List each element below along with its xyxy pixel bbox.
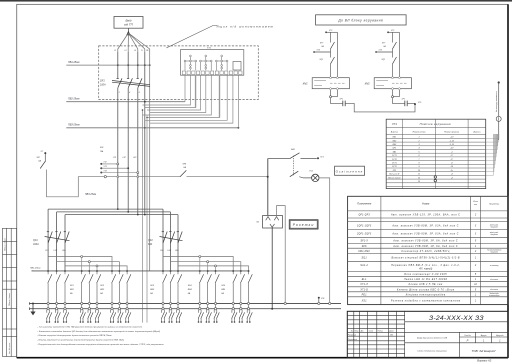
dashed enclosure box — [99, 46, 259, 100]
wire feed L1 horizontal — [48, 208, 163, 210]
tap junction on L2 — [127, 167, 129, 169]
wire feed L3 horizontal — [65, 214, 178, 216]
svg-text:ВВ1: ВВ1 — [70, 289, 74, 291]
phase distribution bus — [34, 270, 249, 272]
contactor КМ2 output wiring — [392, 90, 408, 107]
junction L1 — [117, 208, 119, 210]
wire QF1 pole3 — [64, 215, 66, 271]
svg-text:QF1-QF3: QF1-QF3 — [358, 214, 370, 216]
tap drops from steps — [82, 258, 216, 271]
svg-text:ХТ2: ХТ2 — [390, 30, 394, 32]
wire L2P down — [127, 88, 129, 212]
XT1 internal terminal clusters — [184, 55, 228, 71]
socket XS1 — [263, 216, 283, 229]
wire distribution step 2 (right) — [171, 262, 241, 271]
svg-text:ХТ2: ХТ2 — [328, 30, 332, 32]
svg-text:ПВ1-16мм: ПВ1-16мм — [30, 267, 41, 269]
svg-text:Розробив: Розробив — [348, 335, 356, 337]
junction N end — [144, 214, 146, 216]
svg-text:ЕL1: ЕL1 — [362, 279, 367, 281]
svg-text:Підпис і дата: Підпис і дата — [4, 237, 7, 251]
contactor КМ2 coil box — [374, 78, 411, 89]
svg-text:ХТ1-Б: ХТ1-Б — [359, 289, 368, 291]
svg-text:ХТ4: ХТ4 — [103, 169, 107, 172]
svg-text:ХТ1: ХТ1 — [206, 48, 212, 50]
wire distribution step 3 (left) — [65, 266, 127, 271]
svg-text:Авт. вимикач УЗВ-80М, 3Р, 63А,: Авт. вимикач УЗВ-80М, 3Р, 63А, 6кА тип С — [391, 232, 459, 235]
svg-text:63А: 63А — [148, 243, 153, 246]
label box Rozetky — [289, 220, 318, 229]
svg-text:SА1: SА1 — [393, 150, 397, 153]
svg-text:або аналог: або аналог — [490, 279, 498, 281]
svg-text:Арк: Арк — [360, 330, 364, 333]
breaker column SF1 — [46, 270, 52, 322]
svg-text:блокування: блокування — [490, 252, 498, 254]
svg-text:4: 4 — [129, 91, 130, 94]
wire N vertical long — [144, 52, 146, 215]
svg-text:–Лінилки переріжні безперервни: –Лінилки переріжні безперервних брати жи… — [36, 334, 112, 337]
svg-text:11: 11 — [418, 174, 420, 176]
wiring table (XT1 / Pomitka keruvannia) — [386, 119, 486, 188]
svg-text:QF1: QF1 — [393, 148, 397, 150]
svg-text:Перемикач ПВЗ-ВМ-Л (3-х поз.,: Перемикач ПВЗ-ВМ-Л (3-х поз., 3 фаз. 1-0… — [391, 264, 460, 267]
svg-text:Підпис: Підпис — [378, 330, 383, 333]
breaker column SF17 — [239, 270, 245, 322]
svg-text:L3: L3 — [134, 50, 136, 52]
control circuit 2 (contactor KM2) — [375, 31, 399, 77]
svg-text:КМ2: КМ2 — [365, 82, 370, 85]
contactor КМ1 coil box — [312, 78, 349, 89]
switch SF7 — [44, 154, 46, 162]
svg-text:4: 4 — [418, 147, 419, 150]
svg-text:1ХТ1: 1ХТ1 — [392, 155, 397, 157]
svg-text:2ХТ2: 2ХТ2 — [391, 166, 397, 168]
switch SF6 — [180, 170, 186, 176]
wire bundle from XT1 down and left — [143, 75, 239, 128]
svg-text:Розетка подвійна з заземлюючим: Розетка подвійна з заземлюючим контактом — [391, 300, 461, 303]
svg-text:РЕ1: РЕ1 — [362, 294, 368, 296]
wire L2 vertical — [127, 52, 129, 78]
apex arrowhead — [126, 31, 130, 36]
terminal circle lamp N on bus — [329, 302, 331, 304]
svg-text:SА1: SА1 — [291, 148, 295, 151]
svg-text:Номер провода: Номер провода — [444, 131, 460, 134]
wire PE vertical long — [149, 52, 151, 271]
svg-text:Аркуш: Аркуш — [480, 334, 487, 337]
svg-text:Контактор КТ-4023, 220В/50Гц: Контактор КТ-4023, 220В/50Гц — [402, 250, 450, 253]
svg-text:SQ1: SQ1 — [362, 258, 368, 260]
tap circle on L1 — [117, 163, 119, 165]
svg-text:КМ1: КМ1 — [303, 82, 308, 85]
svg-text:6: 6 — [139, 92, 140, 94]
terminal XT — [317, 157, 319, 159]
svg-text:SF8: SF8 — [100, 147, 103, 149]
socket N wire — [277, 206, 286, 303]
wire distribution step 1 (left) — [48, 257, 112, 271]
wire distribution step 2 (left) — [57, 262, 120, 271]
wire QF1 pole1 — [47, 209, 49, 271]
svg-text:ХТ4: ХТ4 — [320, 297, 324, 300]
terminal XT2 tap — [44, 152, 46, 154]
svg-text:До ВЛ блоку керування: До ВЛ блоку керування — [337, 19, 383, 23]
svg-text:Клемна Шінка силова КВС 6-70 «: Клемна Шінка силова КВС 6-70 «Влив — [397, 288, 455, 291]
wire PV2-25 line — [66, 101, 185, 103]
svg-text:SF6: SF6 — [362, 246, 367, 248]
svg-text:блокування: блокування — [490, 226, 498, 228]
breaker column SF12 — [176, 270, 182, 322]
svg-text:ТОВ “АК Енергія”: ТОВ “АК Енергія” — [472, 349, 497, 353]
table circle mark 2 — [434, 179, 436, 181]
svg-text:2ХТ1: 2ХТ1 — [391, 163, 397, 165]
wire feed L2 horizontal — [57, 211, 171, 213]
svg-text:шт: шт — [474, 204, 478, 206]
svg-text:1: 1 — [418, 137, 419, 139]
terminal stub XT4 — [318, 297, 320, 299]
wire SA1 out — [301, 158, 317, 160]
svg-text:1QF1-1QF3: 1QF1-1QF3 — [357, 226, 372, 228]
svg-text:ХР1: ХР1 — [392, 170, 397, 172]
tap terminal ХТ2 — [100, 163, 102, 165]
svg-text:Лампа LED 11 Вт Е27 4000К: Лампа LED 11 Вт Е27 4000К — [403, 278, 448, 281]
svg-text:Шифр бригадного відділення і-П: Шифр бригадного відділення і-ПВ — [417, 337, 448, 340]
page top edge line — [0, 0, 512, 2]
svg-text:Вимикач кінцевий ВП5К-3(4)(1)-: Вимикач кінцевий ВП5К-3(4)(1)-5(4)(2)-3/… — [391, 257, 459, 260]
wire lighting line left part — [106, 176, 180, 178]
svg-text:-2s: -2s — [450, 170, 453, 172]
svg-text:Кільк: Кільк — [473, 200, 478, 203]
svg-text:ПВ2-25мм: ПВ2-25мм — [68, 98, 80, 101]
XT1 terminal strip — [182, 71, 242, 75]
circuit breaker QF2 63A — [160, 230, 183, 243]
svg-text:Помічка керування: Помічка керування — [420, 122, 451, 126]
svg-text:КМ1,КМ2: КМ1,КМ2 — [358, 251, 370, 253]
wire input drop — [127, 28, 129, 33]
svg-text:Так встановлюються: Так встановлюються — [487, 250, 502, 252]
svg-text:Номер клеми: Номер клеми — [413, 132, 427, 134]
svg-text:до контуру заземлення: до контуру заземлення — [495, 91, 498, 112]
junction — [127, 64, 129, 66]
junction PV3/N — [144, 127, 146, 129]
svg-text:EL1: EL1 — [310, 171, 314, 173]
wire L1 vertical — [117, 52, 119, 78]
svg-text:Формат А3: Формат А3 — [477, 359, 492, 363]
svg-text:Авт. вимикач УЗВ-80М, 3Р, 63А,: Авт. вимикач УЗВ-80М, 3Р, 63А, 6кА тип С — [391, 225, 459, 228]
svg-text:-4: -4 — [451, 176, 453, 179]
specification table — [348, 196, 508, 304]
svg-text:SQ1: SQ1 — [320, 59, 324, 61]
breaker column SF11 — [169, 270, 175, 322]
wire QF2 pole1 — [162, 209, 164, 271]
svg-text:SА1-2: SА1-2 — [360, 264, 368, 267]
PE bus end tick — [29, 307, 31, 310]
wire lighting line right part — [187, 176, 268, 178]
svg-text:– Тип системи заземлення СТВ,: – Тип системи заземлення СТВ, ТАЇ указан… — [36, 326, 143, 329]
terminal XT5 — [414, 103, 416, 105]
svg-text:ХТ1-Л: ХТ1-Л — [359, 284, 368, 286]
svg-text:Адреса: Адреса — [472, 131, 481, 134]
svg-text:Перевірив: Перевірив — [348, 338, 357, 341]
svg-text:QF2: QF2 — [148, 239, 153, 242]
svg-text:ПВЗ-25мм: ПВЗ-25мм — [68, 124, 80, 127]
XT1 side box — [233, 62, 241, 71]
header box "До ВЛ блоку керування" — [316, 15, 407, 25]
contactor КМ1 output wiring — [330, 90, 346, 107]
wire distribution step 1 (right) — [163, 257, 233, 271]
tap terminal ХТ4 — [100, 172, 102, 174]
junction L3 — [137, 214, 139, 216]
wire QF1 pole2 — [56, 212, 58, 271]
svg-text:від ТП: від ТП — [124, 23, 134, 27]
svg-text:Назва: Назва — [422, 202, 430, 206]
ground symbol — [32, 303, 34, 305]
svg-text:Ящик під шиномонтажем: Ящик під шиномонтажем — [216, 25, 274, 29]
tap circle on L3 — [137, 172, 139, 174]
svg-text:Розетки: Розетки — [293, 223, 315, 227]
svg-text:Адреса: Адреса — [390, 131, 399, 134]
svg-text:Інв. № ориг.: Інв. № ориг. — [8, 342, 11, 354]
wire L3 vertical — [137, 52, 139, 78]
lamp EL1 — [312, 174, 319, 181]
svg-text:ПВ1-25мм: ПВ1-25мм — [68, 61, 80, 64]
svg-text:блокування: блокування — [490, 234, 498, 236]
leader line to enclosure label — [166, 26, 217, 49]
svg-text:Всі шини N: Всі шини N — [390, 173, 400, 176]
N bus end tick — [29, 302, 31, 305]
socket riser wire — [267, 159, 269, 216]
bus N — [30, 303, 342, 305]
svg-text:на напляжку: на напляжку — [490, 265, 499, 267]
wire joining control outputs — [346, 103, 416, 112]
svg-text:Авт. вимикач УЗВ-80М, 3Р, 6А,: Авт. вимикач УЗВ-80М, 3Р, 6А, 6кА тип С — [392, 239, 458, 242]
tap terminal ХТЗ — [100, 167, 102, 169]
SA1 mechanical link — [293, 156, 295, 176]
svg-text:–Лінилки відключені до розетко: –Лінилки відключені до розеткових жердів… — [36, 339, 125, 342]
svg-text:Освітлення: Освітлення — [336, 170, 364, 174]
svg-text:ПВЗ-25мм: ПВЗ-25мм — [85, 194, 96, 196]
svg-text:Клема А3В 2,5 ПЕ сим: Клема А3В 2,5 ПЕ сим — [409, 283, 443, 286]
breaker column SF13 — [198, 270, 204, 322]
breaker column SF10 — [161, 270, 167, 322]
ground clamp symbol — [496, 116, 501, 121]
svg-text:QF1: QF1 — [100, 80, 105, 83]
socket PE wire — [271, 227, 273, 309]
hop circle lighting/L3 — [137, 176, 139, 178]
junction PV3 end — [238, 127, 240, 129]
switch SA1 lower contact — [290, 171, 299, 177]
breaker column SF4 — [80, 270, 86, 322]
junction — [117, 64, 119, 66]
svg-text:ХТ2: ХТ2 — [103, 162, 107, 164]
svg-text:Аркушів: Аркушів — [495, 334, 503, 337]
wire PV3-25 line — [66, 127, 238, 129]
breaker column SF5 — [87, 270, 93, 322]
input source box "Ввід від ТП" — [114, 17, 143, 29]
wire QF2 pole3 — [177, 215, 179, 271]
terminal block XT1 — [181, 50, 244, 76]
svg-text:Стадія: Стадія — [464, 334, 470, 337]
circuit breaker QF0 100A (3-pole) — [112, 78, 150, 88]
clamp glyph — [498, 117, 500, 120]
svg-text:100А: 100А — [100, 84, 106, 87]
frame right thick line — [507, 4, 509, 357]
svg-text:L1: L1 — [114, 50, 116, 52]
wire ground down — [498, 121, 500, 140]
wire bundle verticals going down — [143, 111, 148, 323]
svg-text:З-24-ХХХ-ХХ ЗЗ: З-24-ХХХ-ХХ ЗЗ — [429, 315, 484, 322]
wide pale conductors below XT1 — [195, 75, 197, 107]
wire PV1-25 bus line — [66, 64, 149, 66]
junction socket PE on bus — [271, 308, 273, 310]
svg-text:Схема електрична принципова: Схема електрична принципова — [417, 351, 447, 353]
wire distribution step 3 (right) — [178, 266, 249, 271]
breaker column SF14 — [206, 270, 212, 322]
svg-text:Р: Р — [467, 339, 469, 343]
breaker column SF2 — [55, 270, 61, 322]
svg-text:SF1-5: SF1-5 — [360, 240, 368, 242]
hop circle lighting/L1 — [117, 176, 119, 178]
svg-text:SQ1: SQ1 — [382, 59, 386, 61]
breaker column SF7 — [110, 270, 116, 322]
junction bundle 2 — [146, 117, 148, 119]
grounding conductor to earth loop — [498, 81, 500, 83]
svg-text:ВБ1: ВБ1 — [393, 137, 397, 139]
svg-text:Кінцівка електропровідна: Кінцівка електропровідна — [406, 293, 446, 296]
svg-text:– Комплекти споживбол безпечні: – Комплекти споживбол безпечні QD безпец… — [36, 330, 160, 333]
breaker column SF6 — [95, 270, 101, 322]
lamp return wire — [319, 178, 330, 302]
svg-text:ХР1: ХР1 — [339, 98, 343, 100]
svg-text:Кільк: Кільк — [355, 330, 359, 333]
svg-text:ХS1: ХS1 — [361, 301, 368, 303]
breaker column SF3 — [63, 270, 69, 322]
svg-text:Підпис і дата: Підпис і дата — [8, 292, 11, 306]
svg-text:Авт. вимикач УЗВ-125, 3Р, 100А: Авт. вимикач УЗВ-125, 3Р, 100А, ВАА, тип… — [390, 213, 460, 216]
breaker column SF16 — [231, 270, 237, 322]
table circle mark 1 — [434, 176, 436, 178]
svg-text:–Переріжджик між для безперобі: –Переріжджик між для безперобілями систе… — [36, 343, 164, 346]
svg-text:Примітка: Примітка — [489, 203, 500, 206]
svg-text:Дата: Дата — [388, 331, 394, 333]
wire from SF7 to lighting line — [47, 170, 105, 197]
switch SA1 upper contact — [268, 158, 290, 160]
breaker column SF8 — [118, 270, 124, 322]
wire L3P down — [137, 88, 139, 215]
bus PE — [30, 308, 342, 310]
svg-text:QF1: QF1 — [33, 239, 38, 242]
wire QF2 pole2 — [170, 212, 172, 271]
table connection comb — [486, 134, 499, 175]
junction PV2/N — [144, 101, 146, 103]
control circuit 1 (contactor KM1) — [313, 31, 337, 77]
svg-text:Авт. вимикач УЗВ-80М, 1Р, 6А,: Авт. вимикач УЗВ-80М, 1Р, 6А, 6кА тип С — [392, 245, 458, 248]
svg-text:Блок компенсації С-90 1965: Блок компенсації С-90 1965 — [404, 273, 447, 276]
junction L2 — [127, 211, 129, 213]
svg-text:2QF1-2QF3: 2QF1-2QF3 — [356, 233, 372, 235]
breaker column SF15 — [214, 270, 220, 322]
breaker column SF18 — [247, 270, 253, 322]
svg-text:ХТЗ: ХТЗ — [103, 166, 107, 168]
svg-text:-4: -4 — [451, 173, 453, 176]
label box Osvitlennia — [335, 166, 365, 175]
svg-text:ХТ5: ХТ5 — [417, 102, 421, 104]
svg-text:ХТ1: ХТ1 — [391, 122, 398, 126]
svg-text:Позначення: Позначення — [357, 202, 372, 206]
junction — [137, 64, 139, 66]
title block — [347, 311, 508, 357]
terminal circle on lighting line — [104, 176, 106, 178]
junction bundle — [142, 109, 144, 111]
svg-text:Відгал.заземл: Відгал.заземл — [388, 176, 401, 179]
wire fan to L1 L2 L3 N PE — [118, 33, 150, 52]
svg-text:SF1: SF1 — [70, 285, 74, 287]
left margin title strip — [3, 228, 17, 356]
wire L1P down — [117, 88, 119, 209]
junction riser/lighting line — [267, 176, 269, 178]
svg-text:№док: №док — [369, 330, 374, 333]
svg-text:45°, чорний): 45°, чорний) — [419, 267, 432, 270]
breaker column SF9 — [125, 270, 131, 322]
circuit breaker QF1 160A — [45, 230, 70, 243]
svg-text:160А: 160А — [33, 243, 39, 246]
junction — [149, 64, 151, 66]
frame bottom thick line — [17, 357, 508, 359]
terminal circle socket N on bus — [284, 302, 286, 304]
svg-text:або аналог: або аналог — [490, 289, 498, 291]
bus left end tick — [32, 270, 34, 272]
svg-text:ХР1: ХР1 — [401, 98, 405, 100]
svg-text:L2: L2 — [125, 50, 127, 52]
junction — [144, 64, 146, 66]
svg-text:-1: -1 — [451, 151, 453, 153]
